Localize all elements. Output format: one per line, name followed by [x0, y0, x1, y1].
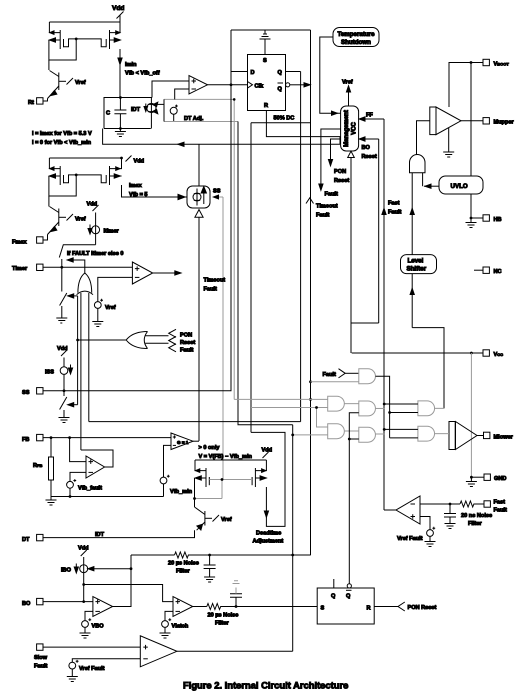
node Vcc junction: [470, 352, 473, 355]
wire Mupper output: [461, 120, 483, 122]
block Level Shifter: [401, 255, 437, 274]
and gate A2: [328, 396, 345, 411]
wire fast fault output: [384, 509, 396, 511]
svg-text:20 µs Noise: 20 µs Noise: [208, 613, 239, 619]
svg-text:Shifter: Shifter: [407, 266, 427, 273]
wire comparator plus input: [152, 81, 189, 98]
triangle SS enable: [195, 210, 203, 218]
wire Vfb_fault to rail: [69, 488, 71, 496]
ground Vref Fault (fast): [425, 536, 436, 546]
wire Vfb fault output loop: [81, 450, 113, 467]
wire Vlatch output: [193, 606, 207, 608]
svg-text:Shutdown: Shutdown: [341, 39, 371, 46]
wire BO net: [43, 601, 93, 603]
svg-text:Fault: Fault: [180, 347, 193, 353]
svg-text:Timeout: Timeout: [204, 278, 226, 284]
svg-text:PON Reset: PON Reset: [408, 605, 437, 611]
wire G=1 output: [193, 440, 199, 442]
and gate A3: [328, 424, 345, 439]
transistor Q3 (BJT deadtime): [195, 507, 232, 530]
block VCC Management: [341, 106, 359, 151]
wire AND3 lower input: [293, 434, 328, 436]
wire Qbar latch to AND4 AND5: [349, 413, 359, 584]
svg-text:Fault: Fault: [325, 192, 338, 198]
pin SS: [22, 388, 43, 396]
wire DT net: [43, 530, 195, 537]
op-amp DT comparator: [189, 76, 208, 95]
svg-text:If FAULT Itimer else 0: If FAULT Itimer else 0: [67, 251, 123, 257]
label PON chevron: [169, 329, 192, 338]
capacitor BO filter: [204, 555, 216, 577]
wire deadtime output loop: [251, 432, 285, 526]
wire 50%DC to deadtime loop: [250, 123, 252, 433]
svg-text:Adjustment: Adjustment: [253, 539, 284, 545]
resistor RFB: [33, 438, 54, 497]
wire S bracket frame: [231, 30, 311, 85]
svg-text:Deadtime: Deadtime: [256, 531, 281, 537]
wire fast fault plus input: [420, 517, 430, 530]
svg-text:BO: BO: [362, 145, 371, 151]
wire Itimer to switch: [59, 245, 95, 268]
svg-text:Fault: Fault: [316, 213, 329, 219]
wire level shifter line: [410, 173, 414, 328]
svg-text:Fast: Fast: [388, 201, 400, 207]
wire AND2 lower input grey: [251, 407, 328, 409]
ground GND pin: [466, 477, 477, 486]
svg-text:Vfb < Vfb_off: Vfb < Vfb_off: [125, 71, 160, 77]
svg-text:Level: Level: [408, 258, 424, 265]
node gate tie mirror1: [75, 38, 78, 41]
wire or input right: [88, 293, 90, 422]
wire fault bus lines: [145, 336, 169, 344]
wire Vlatch minus input: [165, 611, 173, 620]
svg-text:Vref Fault: Vref Fault: [397, 536, 423, 542]
wire PON OR output: [78, 339, 127, 341]
ground driver high-side: [443, 128, 454, 157]
wire VBOOT net: [449, 63, 483, 108]
ground HB: [466, 218, 477, 228]
node latch filter cap: [235, 605, 238, 608]
current source IBO: [61, 564, 88, 602]
svg-text:Filter: Filter: [468, 521, 482, 527]
label FF input: [359, 113, 384, 122]
label current law: [32, 131, 92, 146]
wire drain to BJT collector: [48, 60, 50, 70]
wire Vfb fault plus input: [70, 438, 86, 462]
wire SS gate sense grey: [222, 197, 224, 480]
label Reset chevron: [169, 337, 196, 347]
transistor M1 (PMOS left, Rt mirror): [49, 22, 76, 49]
pin Vcc: [483, 350, 503, 358]
resistor 20us filter BO: [175, 552, 311, 558]
op-amp VBO comparator: [93, 597, 113, 617]
node AND1 lower tap: [309, 380, 312, 383]
pin BO: [22, 598, 43, 606]
Vdd supply Itimer: [87, 202, 99, 226]
wire fault control rail: [68, 294, 78, 407]
source Vlatch: [162, 618, 189, 629]
wire SS cell top: [198, 144, 200, 186]
or gate PON Reset Fault (left facing): [126, 332, 147, 349]
node AND2 upper tap: [309, 398, 312, 401]
ground rail RFB: [46, 497, 57, 506]
svg-text:Filter: Filter: [215, 621, 229, 627]
node IBO branch: [82, 583, 85, 586]
and gate A1: [359, 369, 376, 384]
svg-text:Fault: Fault: [204, 287, 217, 293]
svg-text:Vfb_fault: Vfb_fault: [78, 486, 102, 492]
wire Imax to SS cell: [122, 185, 188, 200]
label >0 only: [199, 445, 253, 460]
pin HB: [470, 215, 502, 223]
ground filter cap: [445, 524, 456, 529]
wire fast fault minus input: [420, 503, 460, 505]
current source DT Adj: [170, 105, 204, 122]
svg-text:I = Imax for Vfb = 5.3 V: I = Imax for Vfb = 5.3 V: [32, 131, 92, 137]
node filter cap junction: [449, 503, 452, 506]
and gate A7: [418, 426, 435, 441]
block UVLO: [439, 176, 483, 194]
pin Fast Fault: [484, 499, 507, 513]
svg-text:Vref: Vref: [75, 80, 86, 86]
wire UVLO output arrow: [424, 184, 439, 188]
wire VBO minus input: [85, 611, 93, 620]
wire comparator minus input: [175, 89, 189, 99]
or gate fault collect (tall): [77, 273, 93, 295]
svg-text:Fault: Fault: [494, 507, 507, 513]
svg-text:Vref: Vref: [75, 217, 86, 223]
buffer high-side driver: [430, 107, 461, 135]
svg-text:I = 0 for Vfb < Vfb_min: I = 0 for Vfb < Vfb_min: [32, 140, 92, 146]
svg-text:VBO: VBO: [92, 624, 105, 630]
wire AND1 output long: [376, 376, 390, 438]
svg-text:Itimer: Itimer: [104, 229, 120, 235]
op-amp slow fault comparator: [140, 636, 177, 667]
pin GND: [470, 474, 506, 482]
svg-text:Vdd: Vdd: [262, 448, 273, 454]
svg-text:Q: Q: [278, 70, 283, 76]
wire IBO control arrow: [88, 567, 131, 571]
svg-text:Clk: Clk: [255, 83, 265, 89]
wire ISS down: [63, 374, 65, 390]
node Vfb_fault rail: [69, 495, 72, 498]
Vdd supply IBO: [78, 546, 89, 565]
ground SS switch: [59, 418, 70, 423]
pin DT: [22, 534, 43, 542]
pin Slow Fault: [34, 644, 48, 670]
svg-text:V = V(FB) − Vfb_min: V = V(FB) − Vfb_min: [199, 454, 253, 460]
svg-text:Fault: Fault: [323, 372, 336, 378]
pin NC: [474, 267, 502, 275]
Vdd supply ISS: [57, 346, 68, 367]
wire timer minus input: [98, 277, 133, 301]
buffer low-side driver: [449, 422, 477, 450]
wire SS net long: [43, 85, 231, 391]
wire top rail mirror2: [49, 157, 121, 159]
wire comparator output to Clk: [208, 84, 248, 86]
wire R output: [266, 111, 340, 145]
wire ramp reset arrow: [103, 129, 340, 147]
source Vref timer: [94, 299, 115, 311]
node deadtime drain: [193, 497, 196, 500]
wire temp shutdown to VCC mgmt: [320, 37, 341, 115]
wire Vcc net: [351, 139, 483, 353]
svg-text:Temperature: Temperature: [338, 31, 376, 38]
wire Timer net: [43, 266, 132, 268]
wire AND6 output: [435, 407, 444, 409]
capacitor latch filter: [230, 581, 242, 607]
wire Q output vertical: [300, 72, 302, 422]
pin Rt: [28, 98, 48, 106]
wire mid horizontal y421: [89, 421, 301, 423]
wire deadtime rail: [195, 459, 266, 461]
svg-text:Vdd: Vdd: [87, 202, 98, 208]
label Timeout Fault mid: [204, 278, 226, 293]
pin Mlower: [484, 432, 514, 440]
svg-text:ISS: ISS: [45, 369, 54, 375]
wire or input left: [80, 293, 82, 450]
node bus tap 3: [383, 428, 386, 431]
wire gate bus AND6: [384, 404, 418, 413]
svg-text:20 µs Noise: 20 µs Noise: [168, 561, 199, 567]
wire Qbar output arrow: [290, 83, 310, 87]
source Vfb_fault: [67, 479, 102, 491]
svg-text:Vdd: Vdd: [78, 546, 89, 552]
wire VBO output riser: [113, 555, 131, 607]
wire PON Reset output arrow: [328, 139, 349, 184]
wire grey DT sense: [164, 99, 238, 399]
svg-text:Timeout: Timeout: [316, 204, 338, 210]
svg-text:Q: Q: [278, 86, 283, 92]
svg-text:D: D: [251, 70, 255, 76]
wire Vfb fault minus input: [70, 472, 86, 481]
ground C box: [115, 129, 126, 137]
transistor Q2 (BJT at Fmax): [48, 207, 86, 235]
node C bottom: [119, 127, 122, 130]
node BO filter cap: [208, 554, 211, 557]
node IBO BO wire: [82, 600, 85, 603]
wire Fast Fault vertical: [382, 119, 402, 510]
wire AND5 output: [376, 433, 385, 435]
svg-text:C: C: [106, 111, 110, 117]
ground BO filter cap: [204, 577, 215, 582]
source Vref Fault slow: [69, 660, 105, 672]
svg-text:Reset: Reset: [334, 178, 349, 184]
wire R input chevron: [374, 602, 436, 611]
svg-text:Fault: Fault: [34, 664, 47, 670]
svg-text:IBO: IBO: [61, 568, 72, 574]
and gate A5: [359, 427, 376, 442]
wire AND to lower gates: [412, 328, 444, 409]
node SS junction: [63, 389, 66, 392]
wire AND2 output: [344, 403, 358, 405]
pin Fmax: [12, 235, 48, 246]
wire SS right arrow grey: [212, 194, 223, 199]
wire Vfb ground rail: [51, 496, 164, 498]
wire AND7 output: [435, 433, 449, 435]
Vdd supply top-left: [112, 5, 124, 22]
wire fault control arrow1: [67, 258, 85, 274]
svg-text:Rt: Rt: [28, 100, 34, 106]
svg-text:Imax: Imax: [129, 183, 143, 189]
svg-text:Vdd: Vdd: [112, 5, 124, 12]
wire Vfb_min to rail: [163, 484, 165, 497]
svg-text:Fast: Fast: [494, 499, 506, 505]
wire drain-gate tie mirror1: [49, 39, 76, 60]
ground VBO: [80, 627, 91, 638]
label Imin: [125, 62, 160, 77]
svg-text:50% DC: 50% DC: [274, 116, 295, 122]
node bus tap 2: [388, 411, 391, 414]
node slow fault BO rail: [291, 554, 294, 557]
wire BO filter rail: [131, 554, 175, 556]
node deadtime gate: [221, 478, 224, 481]
wire VBOOT to UVLO/HB: [470, 63, 472, 219]
op-amp fast fault comparator: [396, 496, 420, 524]
and gate A4: [359, 401, 376, 416]
label Imax: [129, 183, 148, 198]
wire gate tie grey deadtime: [195, 480, 253, 499]
svg-text:VCC: VCC: [351, 122, 357, 135]
wire 50%DC feedback: [251, 122, 311, 124]
svg-text:Filter: Filter: [176, 569, 190, 575]
svg-text:Slow: Slow: [34, 655, 48, 661]
svg-text:Timer: Timer: [12, 266, 28, 272]
transistor M2 (PMOS right, Rt mirror): [76, 22, 120, 49]
wire DT adj routing: [238, 122, 293, 425]
svg-text:PON: PON: [180, 333, 192, 339]
wire left drain deadtime: [194, 478, 196, 507]
wire Imin (M2 drain down to C box): [118, 49, 122, 98]
wire drain to BJT2: [48, 196, 50, 207]
wire Fault to AND1: [345, 372, 359, 374]
svg-text:SS: SS: [22, 390, 30, 396]
pin FB: [22, 434, 43, 442]
capacitor 20ns filter: [444, 504, 456, 524]
op-amp G=1 transconductance: [171, 433, 193, 450]
svg-text:Management: Management: [344, 110, 350, 147]
svg-text:Mupper: Mupper: [494, 120, 515, 126]
resistor 20us filter latch: [207, 604, 317, 610]
svg-text:DT: DT: [22, 537, 30, 543]
node gate tie mirror2: [75, 174, 78, 177]
source Vfb_min: [160, 475, 193, 495]
node AND3 riser tap: [315, 406, 318, 409]
svg-text:Vdd: Vdd: [134, 159, 145, 165]
svg-text:SS: SS: [213, 189, 221, 195]
resistor 20ns filter: [460, 501, 484, 507]
svg-text:S: S: [263, 58, 267, 64]
svg-text:UVLO: UVLO: [451, 183, 468, 190]
power tie S input: [260, 30, 271, 55]
wire slow fault vertical: [292, 425, 294, 652]
wire IDT to grey nets: [156, 99, 164, 104]
transistor Q1 (BJT at Rt): [48, 71, 86, 99]
Vdd supply deadtime: [262, 448, 273, 461]
wire AND2 upper input grey: [234, 398, 328, 400]
label BO Reset input: [359, 137, 379, 160]
block Temperature Shutdown: [333, 28, 379, 47]
ground Vlatch: [160, 627, 171, 638]
enable triangle below VCC mgmt: [348, 151, 355, 157]
pin Timer: [12, 264, 43, 272]
transistor M3 (PMOS left, Imax mirror): [49, 158, 76, 185]
flip-flop U1 (D-FF): [248, 55, 290, 111]
svg-text:GND: GND: [494, 476, 506, 482]
transistor IDT: [131, 98, 158, 129]
cell SS current source: [187, 186, 221, 208]
Vdd supply Imax mirror: [126, 156, 145, 165]
op-amp timeout comparator: [132, 262, 152, 284]
transistor M4 (PMOS right, Imax mirror): [76, 158, 121, 185]
current source Itimer: [88, 225, 120, 245]
svg-text:BO: BO: [22, 601, 31, 607]
svg-text:Vref: Vref: [342, 80, 353, 86]
current source ISS: [45, 365, 73, 376]
wire C box frame: [104, 98, 152, 129]
wire gate bus AND7: [384, 429, 418, 438]
node AND3 lower tap: [291, 434, 294, 437]
wire AND3 upper riser grey: [317, 408, 328, 428]
latch U2 (SR): [317, 579, 374, 624]
wire SS discharge switch: [60, 391, 67, 418]
transistor M6 (PMOS right deadtime): [252, 460, 267, 487]
wire Vcc to driver rail grey: [470, 353, 472, 477]
op-amp Vlatch comparator: [173, 597, 193, 617]
svg-text:Vref Fault: Vref Fault: [79, 666, 105, 672]
ground Vref timer: [92, 308, 103, 326]
node VBO out riser: [130, 567, 133, 570]
svg-text:R: R: [367, 606, 371, 612]
svg-text:Reset: Reset: [362, 154, 377, 160]
source VBO: [82, 618, 105, 629]
wire Fault output arrow: [319, 129, 341, 198]
svg-text:FB: FB: [22, 437, 29, 443]
svg-text:Fmax: Fmax: [12, 240, 28, 246]
node FB opamp tap: [68, 436, 71, 439]
wire Mlower output: [477, 435, 484, 437]
wire Qbar box vertical: [310, 30, 312, 555]
wire slow fault minus input: [72, 659, 140, 662]
label Deadtime Adjustment: [253, 531, 284, 545]
label Fault chevron input: [323, 369, 346, 378]
svg-text:Vref: Vref: [105, 305, 116, 311]
svg-text:NC: NC: [494, 269, 502, 275]
node Qbar AND5: [348, 438, 351, 441]
node VBOOT junction: [470, 61, 473, 64]
wire Vref output arrow: [342, 80, 353, 107]
svg-text:Imin: Imin: [125, 62, 137, 68]
wire AND3 output: [344, 430, 358, 432]
svg-text:Reset: Reset: [180, 340, 195, 346]
node C top: [119, 96, 122, 99]
svg-text:Figure 2. Internal Circuit Arc: Figure 2. Internal Circuit Architecture: [183, 680, 348, 691]
svg-text:G = 1: G = 1: [177, 440, 189, 445]
capacitor C (oscillator): [106, 98, 126, 129]
node Timer junction: [60, 266, 63, 269]
wire Q output: [286, 71, 301, 73]
svg-text:R: R: [264, 103, 268, 109]
op-amp Vfb fault comparator: [86, 456, 105, 478]
node OR output tie: [76, 339, 79, 342]
wire timeout output arrow: [153, 271, 181, 275]
svg-text:Mlower: Mlower: [494, 434, 514, 440]
node rail mirror2: [120, 157, 123, 160]
node FB RFB: [50, 436, 53, 439]
wire Vcc sense vertical: [350, 158, 352, 354]
svg-text:Vlatch: Vlatch: [172, 624, 189, 630]
pin Mupper: [483, 118, 515, 126]
